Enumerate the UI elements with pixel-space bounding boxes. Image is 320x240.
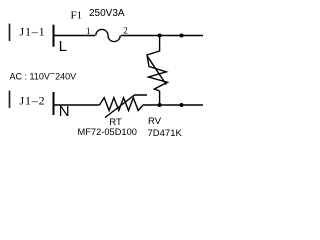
- wire N from J1-2 to RT: [55, 104, 100, 106]
- wire L from fuse to right edge: [121, 35, 203, 37]
- junction dot top at RV: [158, 34, 162, 38]
- junction dot bottom right: [180, 103, 184, 107]
- connector J1 boundary dash (bottom): [9, 91, 11, 108]
- junction dot bottom at RV: [158, 103, 162, 107]
- svg-text:2: 2: [123, 26, 128, 36]
- svg-text:MF72-05D100: MF72-05D100: [78, 127, 137, 137]
- connector J1 boundary dash (top): [9, 24, 11, 41]
- svg-text:F1: F1: [71, 10, 83, 22]
- thermistor RT diagonal with tail: [105, 95, 147, 118]
- svg-text:7D471K: 7D471K: [148, 128, 183, 139]
- svg-text:1: 1: [86, 26, 91, 36]
- junction dot top right: [180, 34, 184, 38]
- varistor RV diagonal: [147, 56, 166, 84]
- svg-text:250V3A: 250V3A: [89, 8, 125, 19]
- wire N from RT to right edge: [143, 104, 203, 106]
- connector J1-1 pin bar: [53, 25, 55, 47]
- svg-text:J1–2: J1–2: [20, 94, 46, 108]
- svg-text:L: L: [59, 38, 67, 55]
- connector J1-2 pin bar: [53, 92, 55, 115]
- thermistor RT zigzag: [99, 98, 143, 111]
- fuse F1 symbol: [96, 29, 120, 41]
- varistor RV zigzag: [147, 51, 168, 91]
- varistor RV top lead: [159, 36, 161, 52]
- varistor RV bottom lead: [159, 91, 161, 105]
- svg-text:RV: RV: [148, 116, 162, 127]
- wire L from J1-1 to fuse: [55, 35, 96, 37]
- svg-text:J1–1: J1–1: [20, 25, 46, 39]
